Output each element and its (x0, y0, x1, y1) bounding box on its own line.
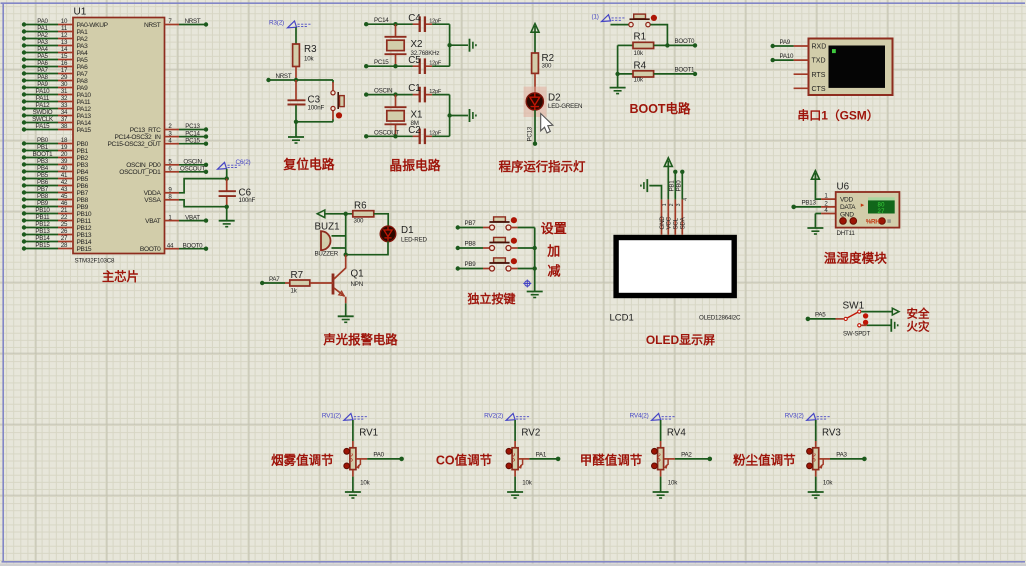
svg-text:SW1: SW1 (843, 301, 865, 312)
net marker R3(2) (269, 19, 311, 28)
svg-text:BOOT0: BOOT0 (183, 242, 204, 249)
svg-text:10k: 10k (634, 77, 644, 84)
svg-text:PC14: PC14 (374, 17, 389, 24)
svg-text:PA1: PA1 (37, 25, 48, 32)
svg-text:BOOT1: BOOT1 (33, 151, 54, 158)
svg-text:PB14: PB14 (35, 235, 50, 242)
svg-text:PA2: PA2 (77, 36, 89, 43)
svg-text:NRST: NRST (276, 73, 292, 80)
svg-text:D2: D2 (548, 93, 561, 104)
resistor R7 1k (260, 270, 333, 295)
wire PA9 (771, 39, 794, 48)
pin PA15 (38) left wire PA15 (22, 123, 92, 134)
svg-text:PA5: PA5 (815, 312, 826, 319)
svg-text:PA3: PA3 (37, 39, 48, 46)
svg-text:PB0: PB0 (77, 141, 89, 148)
svg-text:C1: C1 (408, 83, 421, 94)
pin PB13 (26) left wire PB13 (22, 228, 92, 239)
buzzer BUZ1 (315, 214, 346, 258)
wire LED to PC13 (527, 110, 538, 146)
svg-text:VCC: VCC (666, 216, 673, 229)
svg-text:PA7: PA7 (77, 71, 89, 78)
svg-text:OSCOUT_PD1: OSCOUT_PD1 (119, 169, 161, 176)
ground RV4 (653, 492, 669, 498)
wire D1 to junction (344, 241, 389, 257)
svg-text:PA7: PA7 (269, 276, 280, 283)
svg-text:37: 37 (61, 116, 68, 123)
svg-text:RV2: RV2 (521, 428, 540, 439)
svg-text:设置: 设置 (541, 221, 567, 236)
capacitor C3 100nF (288, 80, 325, 122)
wire crystal right top (447, 24, 468, 66)
svg-text:PA7: PA7 (37, 67, 48, 74)
svg-text:300: 300 (354, 218, 364, 225)
node PC15 wire (364, 59, 413, 68)
svg-text:PA6: PA6 (77, 64, 89, 71)
pin PB11 (22) left wire PB11 (22, 214, 92, 225)
ground OLED GND pin (641, 179, 662, 199)
svg-text:VSSA: VSSA (144, 197, 161, 204)
ground right of X1 (470, 109, 476, 122)
svg-text:12: 12 (61, 32, 68, 39)
svg-text:加: 加 (546, 244, 560, 259)
ground BOOT (610, 74, 626, 94)
svg-text:R3: R3 (304, 44, 317, 55)
pin PA6 (16) left wire PA6 (22, 60, 88, 71)
pin BOOT0 (44) right (140, 242, 208, 253)
svg-text:复位电路: 复位电路 (282, 157, 334, 172)
pin PA1 (11) left wire PA1 (22, 25, 88, 36)
svg-text:VBAT: VBAT (145, 218, 161, 225)
ground RV3 (808, 492, 824, 498)
svg-text:PA9: PA9 (780, 39, 791, 46)
svg-text:D1: D1 (401, 225, 414, 236)
svg-text:PA11: PA11 (77, 99, 91, 106)
svg-text:PB4: PB4 (77, 169, 89, 176)
svg-text:RV4(2): RV4(2) (630, 413, 649, 420)
svg-text:34: 34 (61, 109, 68, 116)
svg-text:SW-SPDT: SW-SPDT (843, 330, 870, 337)
pin PB12 (25) left wire PB12 (22, 221, 92, 232)
svg-text:PB14: PB14 (77, 239, 92, 246)
svg-text:PA0: PA0 (373, 452, 384, 459)
push button PB8 (456, 237, 535, 250)
svg-text:33: 33 (61, 102, 68, 109)
svg-text:U1: U1 (74, 7, 87, 18)
svg-text:VBAT: VBAT (185, 214, 200, 221)
svg-text:PB3: PB3 (77, 162, 89, 169)
svg-text:RXD: RXD (812, 44, 827, 51)
svg-text:RTS: RTS (812, 72, 826, 79)
potentiometer RV3 10k (807, 420, 842, 492)
svg-text:C6(2): C6(2) (236, 159, 251, 166)
svg-text:44: 44 (167, 242, 174, 249)
pin VBAT (1) right (145, 214, 208, 225)
pin PA13 (34) left wire SWDIO (22, 109, 92, 120)
pin NRST (7) right (144, 18, 208, 29)
svg-text:PA10: PA10 (77, 92, 92, 99)
svg-text:10k: 10k (522, 480, 532, 487)
MCU U1 STM32F103C8 (73, 7, 165, 265)
power arrow OLED VCC (664, 158, 672, 200)
GSM module box (794, 39, 893, 96)
svg-text:BOOT0: BOOT0 (140, 246, 161, 253)
svg-text:40: 40 (61, 165, 68, 172)
svg-text:PA15: PA15 (36, 123, 50, 130)
svg-text:PA4: PA4 (77, 50, 89, 57)
svg-text:PB13: PB13 (35, 228, 50, 235)
svg-text:PB10: PB10 (77, 211, 92, 218)
svg-text:PC15: PC15 (374, 59, 389, 66)
ground below C6 (219, 207, 235, 227)
wire PA3 (830, 452, 867, 462)
svg-text:(1): (1) (592, 14, 599, 21)
svg-text:NRST: NRST (144, 22, 161, 29)
svg-text:PB6: PB6 (77, 183, 89, 190)
svg-text:SWDIO: SWDIO (33, 109, 53, 116)
pin VDDA (9) right (144, 187, 179, 198)
pin PA5 (15) left wire PA5 (22, 53, 88, 64)
resistor R4 10k (615, 45, 697, 83)
svg-text:32: 32 (61, 95, 68, 102)
wire PA1 (529, 452, 560, 462)
node PC14 wire (364, 17, 413, 26)
wire PA0 (367, 452, 404, 462)
svg-text:2: 2 (669, 203, 675, 206)
capacitor C1 12pF (408, 83, 449, 102)
pin PB2 (20) left wire BOOT1 (22, 151, 89, 162)
svg-text:VDDA: VDDA (144, 190, 162, 197)
svg-text:PB0: PB0 (676, 180, 683, 192)
resistor R1 10k (618, 32, 698, 58)
svg-text:RV1: RV1 (359, 428, 378, 439)
svg-text:PB12: PB12 (35, 221, 50, 228)
svg-text:PB1: PB1 (77, 148, 89, 155)
svg-text:RV3(2): RV3(2) (785, 413, 804, 420)
pin PB1 (19) left wire PB1 (22, 144, 89, 155)
ground right (火灾) (861, 319, 898, 332)
svg-text:PB11: PB11 (77, 218, 92, 225)
svg-text:31: 31 (61, 88, 68, 95)
OLED LCD1 display (610, 235, 742, 324)
wire keys common (533, 228, 537, 292)
power arrow right (安全) (861, 308, 899, 315)
svg-text:甲醛值调节: 甲醛值调节 (580, 452, 643, 467)
svg-text:声光报警电路: 声光报警电路 (322, 332, 398, 347)
svg-text:PA9: PA9 (37, 81, 48, 88)
svg-text:27: 27 (878, 209, 886, 215)
svg-text:C5: C5 (408, 55, 421, 66)
capacitor C5 12pF (408, 55, 449, 74)
svg-text:25: 25 (61, 221, 68, 228)
svg-text:19: 19 (61, 144, 68, 151)
svg-text:10k: 10k (360, 480, 370, 487)
pin PC13_RTC (2) right (130, 123, 208, 134)
svg-text:PB9: PB9 (465, 261, 477, 268)
svg-text:RV3: RV3 (822, 428, 841, 439)
svg-text:SCL: SCL (673, 217, 680, 229)
svg-text:PA3: PA3 (77, 43, 89, 50)
svg-text:12pF: 12pF (429, 131, 442, 137)
pin PC14-OSC32_IN (3) right (114, 130, 208, 141)
svg-text:26: 26 (61, 228, 68, 235)
svg-text:11: 11 (61, 25, 68, 32)
svg-text:▸: ▸ (861, 202, 865, 209)
svg-text:16: 16 (61, 60, 68, 67)
OLED pin stubs GND VCC SCL SDA (662, 199, 683, 234)
svg-text:烟雾值调节: 烟雾值调节 (271, 452, 334, 467)
potentiometer RV2 10k (506, 420, 540, 492)
svg-text:TXD: TXD (812, 58, 826, 65)
svg-text:SDA: SDA (680, 216, 687, 229)
svg-text:PB13: PB13 (802, 200, 817, 207)
svg-text:STM32F103C8: STM32F103C8 (75, 258, 116, 265)
DHT11 module U6 (821, 182, 899, 237)
svg-text:10k: 10k (634, 50, 644, 57)
potentiometer RV1 10k (344, 420, 378, 492)
svg-text:程序运行指示灯: 程序运行指示灯 (499, 159, 586, 174)
svg-text:30: 30 (61, 81, 68, 88)
node OSCOUT wire (364, 129, 413, 138)
svg-text:NPN: NPN (351, 281, 363, 288)
svg-text:CTS: CTS (812, 86, 826, 93)
LED D1 LED-RED (380, 225, 427, 244)
svg-text:PA0: PA0 (37, 18, 48, 25)
svg-text:80: 80 (878, 202, 886, 208)
pin PA8 (29) left wire PA8 (22, 74, 88, 85)
pin OSCOUT_PD1 (6) right (119, 166, 208, 177)
pin PA2 (12) left wire PA2 (22, 32, 88, 43)
svg-text:PB5: PB5 (37, 172, 49, 179)
transistor Q1 NPN (333, 255, 364, 317)
svg-text:PB10: PB10 (35, 207, 50, 214)
svg-text:PA2: PA2 (37, 32, 48, 39)
svg-text:晶振电路: 晶振电路 (389, 158, 440, 173)
svg-text:DHT11: DHT11 (837, 230, 856, 237)
svg-text:SWCLK: SWCLK (32, 116, 54, 123)
svg-text:PB3: PB3 (37, 158, 49, 165)
svg-text:18: 18 (61, 137, 68, 144)
node NRST wire (266, 73, 333, 82)
capacitor C6 100nF (218, 159, 256, 209)
svg-text:PB9: PB9 (77, 204, 89, 211)
switch SW1 SW-SPDT (836, 301, 871, 338)
svg-text:14: 14 (61, 46, 68, 53)
svg-text:RV4: RV4 (667, 428, 686, 439)
svg-text:12pF: 12pF (429, 61, 442, 67)
svg-text:BUZZER: BUZZER (315, 251, 339, 258)
svg-text:10k: 10k (304, 56, 314, 63)
svg-text:PB15: PB15 (77, 246, 92, 253)
svg-text:BOOT0: BOOT0 (675, 38, 696, 45)
svg-text:10: 10 (61, 18, 68, 25)
pin PB8 (45) left wire PB8 (22, 193, 89, 204)
svg-text:27: 27 (61, 235, 68, 242)
svg-text:PA6: PA6 (37, 60, 48, 67)
svg-text:PA8: PA8 (37, 74, 48, 81)
crystal X1 8M (385, 95, 423, 137)
svg-text:4: 4 (683, 198, 689, 201)
svg-text:20: 20 (61, 151, 68, 158)
svg-text:VDD: VDD (840, 197, 853, 204)
svg-text:1: 1 (662, 203, 668, 206)
svg-text:R7: R7 (291, 270, 304, 281)
svg-text:LED-RED: LED-RED (401, 237, 427, 244)
svg-text:C2: C2 (408, 125, 421, 136)
pin OSCIN_PD0 (5) right (126, 159, 208, 170)
svg-text:BOOT电路: BOOT电路 (629, 101, 691, 116)
svg-text:PB0: PB0 (37, 137, 49, 144)
svg-text:PC14-OSC32_IN: PC14-OSC32_IN (114, 134, 161, 141)
svg-text:OSCIN_PD0: OSCIN_PD0 (126, 162, 161, 169)
wire SDA PB0 (676, 170, 685, 200)
svg-text:PA14: PA14 (77, 120, 92, 127)
pin PA12 (33) left wire PA12 (22, 102, 92, 113)
ground DHT11 (807, 214, 823, 235)
svg-text:X1: X1 (411, 109, 423, 120)
mouse cursor (541, 114, 553, 134)
push button PB7 (456, 217, 535, 230)
svg-text:C4: C4 (408, 13, 421, 24)
svg-text:PB15: PB15 (35, 242, 50, 249)
svg-text:PB1: PB1 (37, 144, 49, 151)
svg-text:10k: 10k (668, 480, 678, 487)
pin PA9 (30) left wire PA9 (22, 81, 88, 92)
pin PA7 (17) left wire PA7 (22, 67, 88, 78)
svg-text:3: 3 (676, 203, 682, 206)
power arrow (VCC) (531, 24, 539, 53)
wire PA5 (806, 312, 836, 322)
svg-text:100nF: 100nF (239, 197, 256, 204)
svg-text:LED-GREEN: LED-GREEN (548, 103, 582, 110)
pin PB4 (40) left wire PB4 (22, 165, 89, 176)
svg-text:PA5: PA5 (77, 57, 89, 64)
svg-text:PC15: PC15 (185, 137, 200, 144)
svg-text:100nF: 100nF (308, 105, 325, 112)
svg-text:PA9: PA9 (77, 85, 89, 92)
potentiometer RV4 10k (652, 420, 687, 492)
power arrow left (alarm) (317, 210, 353, 218)
svg-text:PB1: PB1 (669, 180, 676, 192)
origin marker (blue) (523, 280, 531, 288)
svg-text:Q1: Q1 (351, 269, 364, 280)
svg-text:PA4: PA4 (37, 46, 48, 53)
svg-text:PC13: PC13 (185, 123, 200, 130)
svg-text:粉尘值调节: 粉尘值调节 (733, 452, 796, 467)
svg-text:OSCOUT: OSCOUT (180, 166, 205, 173)
svg-text:PB13: PB13 (77, 232, 92, 239)
svg-text:U6: U6 (837, 182, 850, 193)
LED D2 LED-GREEN (selected highlight) (524, 87, 583, 117)
net marker RV2(2) (484, 413, 529, 421)
svg-text:38: 38 (61, 123, 68, 130)
svg-text:PA2: PA2 (681, 452, 692, 459)
net marker RV4(2) (630, 413, 676, 421)
svg-text:PA11: PA11 (36, 95, 50, 102)
svg-text:RV2(2): RV2(2) (484, 413, 503, 420)
ground Q1 (338, 316, 354, 322)
pin PA0-WKUP (10) left wire PA0 (22, 18, 109, 29)
pin PC15-OSC32_OUT (4) right (108, 137, 209, 148)
wire PB13 (791, 200, 821, 210)
pin VSSA (8) right (144, 194, 179, 205)
OLED pin names vertical (659, 198, 689, 230)
svg-text:X2: X2 (411, 39, 423, 50)
capacitor C4 12pF (408, 13, 449, 32)
svg-text:火灾: 火灾 (907, 319, 930, 333)
svg-text:OSCOUT: OSCOUT (374, 129, 399, 136)
svg-text:R6: R6 (354, 200, 367, 211)
svg-text:PB7: PB7 (465, 220, 477, 227)
svg-text:PC15-OSC32_OUT: PC15-OSC32_OUT (108, 141, 161, 148)
svg-text:42: 42 (61, 179, 68, 186)
svg-text:300: 300 (542, 63, 552, 70)
svg-text:PB8: PB8 (37, 193, 49, 200)
node OSCIN wire (364, 88, 413, 97)
pin PB0 (18) left wire PB0 (22, 137, 89, 148)
svg-text:PB8: PB8 (77, 197, 89, 204)
svg-text:PA1: PA1 (536, 452, 547, 459)
svg-text:PC13_RTC: PC13_RTC (130, 127, 161, 134)
pin PB5 (41) left wire PB5 (22, 172, 89, 183)
svg-text:OLED显示屏: OLED显示屏 (646, 333, 715, 347)
svg-text:独立按键: 独立按键 (466, 291, 515, 306)
svg-text:17: 17 (61, 67, 68, 74)
svg-text:OSCIN: OSCIN (374, 88, 392, 95)
svg-text:43: 43 (61, 186, 68, 193)
svg-text:R1: R1 (634, 32, 647, 43)
svg-text:OSCIN: OSCIN (183, 159, 201, 166)
pin PA14 (37) left wire SWCLK (22, 116, 92, 127)
svg-text:41: 41 (61, 172, 68, 179)
svg-text:28: 28 (61, 242, 68, 249)
svg-text:DATA: DATA (840, 204, 856, 211)
wire crystal right bottom (447, 95, 468, 137)
svg-text:R4: R4 (634, 60, 647, 71)
resistor R3 10k (293, 27, 317, 80)
pin PB15 (28) left wire PB15 (22, 242, 92, 253)
svg-text:29: 29 (61, 74, 68, 81)
svg-text:主芯片: 主芯片 (102, 269, 139, 284)
pin PB6 (42) left wire PB6 (22, 179, 89, 190)
pin PB7 (43) left wire PB7 (22, 186, 89, 197)
svg-text:温湿度模块: 温湿度模块 (824, 251, 887, 266)
svg-text:PA12: PA12 (77, 106, 92, 113)
svg-text:OLED12864I2C: OLED12864I2C (699, 315, 741, 322)
svg-text:10k: 10k (823, 480, 833, 487)
crystal X2 32.768KHz (385, 24, 440, 66)
ground RV2 (507, 492, 523, 498)
svg-text:PB11: PB11 (36, 214, 50, 221)
pin PA10 (31) left wire PA10 (22, 88, 92, 99)
svg-text:12pF: 12pF (429, 89, 442, 95)
svg-text:PA3: PA3 (836, 452, 847, 459)
svg-text:BUZ1: BUZ1 (315, 222, 340, 233)
push button PB9 (456, 258, 535, 271)
svg-text:PB5: PB5 (77, 176, 89, 183)
svg-text:PA12: PA12 (36, 102, 50, 109)
svg-text:PB7: PB7 (37, 186, 49, 193)
svg-text:PC13: PC13 (527, 126, 534, 141)
svg-text:PB6: PB6 (37, 179, 49, 186)
svg-text:PC14: PC14 (185, 130, 200, 137)
svg-text:CO值调节: CO值调节 (436, 452, 493, 467)
svg-text:45: 45 (61, 193, 68, 200)
svg-text:PB9: PB9 (37, 200, 49, 207)
svg-text:PA10: PA10 (780, 53, 794, 60)
pin PB14 (27) left wire PB14 (22, 235, 92, 246)
resistor R6 300 (353, 200, 388, 226)
